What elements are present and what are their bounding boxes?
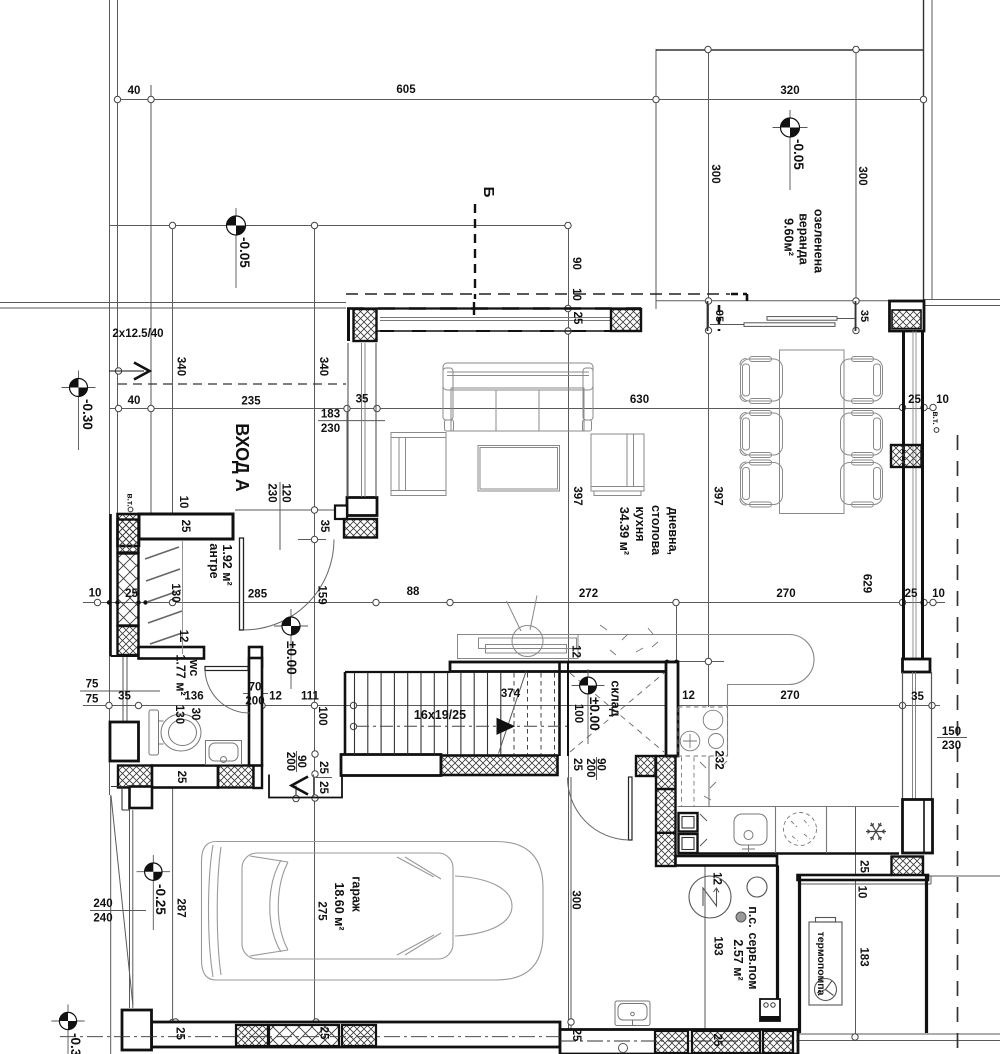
- kitchen base counters: [678, 756, 900, 853]
- svg-text:95: 95: [713, 310, 725, 322]
- svg-text:-0.05: -0.05: [791, 139, 806, 170]
- car in garage: [202, 842, 544, 981]
- svg-text:230: 230: [321, 423, 340, 435]
- door wc leaf and swing: [205, 667, 248, 671]
- svg-text:340: 340: [175, 357, 187, 376]
- svg-text:25: 25: [179, 520, 191, 533]
- door service radiator: [760, 999, 780, 1021]
- svg-text:40: 40: [128, 395, 141, 407]
- wall west exterior column: [118, 520, 139, 553]
- node elevation marker -0.25 garage: [137, 855, 170, 930]
- oven stack: [679, 813, 708, 853]
- arrow entrance: [109, 363, 150, 380]
- wall service east: [776, 866, 779, 1022]
- svg-text:272: 272: [579, 588, 598, 600]
- node dimension labels horizontal: [86, 84, 961, 925]
- wall entrance east pier: [347, 498, 377, 516]
- svg-text:100: 100: [316, 706, 328, 725]
- wall east kitchen block: [903, 800, 933, 854]
- svg-text:90: 90: [570, 257, 582, 270]
- dining chairs: [740, 357, 783, 404]
- fridge snowflake kitchen: [866, 823, 886, 840]
- svg-text:12: 12: [177, 630, 189, 643]
- svg-text:35: 35: [858, 310, 870, 322]
- window wc west: [122, 656, 124, 722]
- door entrance leaf and swing: [205, 538, 632, 840]
- svg-text:±0.00: ±0.00: [587, 697, 602, 731]
- svg-text:12: 12: [269, 691, 282, 703]
- svg-text:п.с.: п.с.: [746, 906, 760, 927]
- svg-text:30: 30: [189, 708, 201, 721]
- svg-text:кухня: кухня: [633, 506, 647, 541]
- svg-text:1.77 м²: 1.77 м²: [174, 654, 188, 695]
- wall stair-kitchen north band: [269, 662, 928, 1033]
- svg-text:ВХОД А: ВХОД А: [232, 423, 252, 491]
- svg-text:10: 10: [89, 588, 102, 600]
- svg-text:183: 183: [321, 409, 340, 421]
- svg-text:397: 397: [712, 486, 724, 505]
- svg-text:Б: Б: [480, 187, 497, 198]
- svg-text:2x12.5/40: 2x12.5/40: [112, 328, 163, 340]
- svg-text:320: 320: [780, 85, 799, 97]
- svg-text:серв.пом: серв.пом: [746, 933, 760, 990]
- cooktop dashed: [784, 813, 817, 846]
- svg-text:100: 100: [572, 704, 584, 723]
- heat pump termopompa: [809, 918, 842, 1006]
- svg-text:25: 25: [125, 588, 138, 600]
- svg-text:90: 90: [595, 758, 607, 771]
- svg-text:75: 75: [86, 679, 99, 691]
- kitchen peninsula counter: [568, 635, 814, 757]
- svg-text:35: 35: [356, 394, 369, 406]
- wall living north pier east: [611, 309, 641, 331]
- kitchen sink south: [734, 814, 767, 853]
- svg-text:374: 374: [501, 688, 521, 700]
- node elevation marker +0.00 sklad: [572, 669, 605, 744]
- svg-text:10: 10: [570, 288, 582, 301]
- stairs direction line and arrow: [356, 725, 567, 727]
- svg-text:200: 200: [284, 752, 296, 771]
- kitchen upper cabinets dashed with burners: [678, 707, 728, 806]
- armchair east: [591, 434, 644, 496]
- svg-text:130: 130: [173, 705, 185, 724]
- dining table: [780, 350, 845, 514]
- wall corridor south band: [560, 1030, 798, 1054]
- svg-text:25: 25: [174, 1027, 186, 1040]
- svg-text:630: 630: [630, 394, 649, 406]
- wall stairs west edge: [344, 672, 347, 755]
- svg-text:200: 200: [584, 758, 596, 777]
- svg-text:12: 12: [711, 872, 723, 885]
- svg-text:12: 12: [682, 690, 695, 702]
- wall wc east column: [249, 658, 262, 766]
- wall service north: [676, 856, 778, 866]
- wall entrance step west: [130, 787, 153, 809]
- svg-text:34.39 м²: 34.39 м²: [617, 507, 631, 555]
- svg-text:в.т.: в.т.: [126, 493, 136, 506]
- wall wc west: [110, 722, 139, 761]
- washbasin wc: [206, 741, 242, 765]
- svg-text:25: 25: [908, 394, 921, 406]
- svg-text:240: 240: [93, 898, 112, 910]
- svg-text:300: 300: [570, 890, 582, 909]
- svg-text:275: 275: [316, 901, 328, 921]
- svg-text:130: 130: [169, 583, 181, 602]
- node dimension labels rotated: [126, 164, 942, 1047]
- svg-text:wc: wc: [187, 659, 201, 677]
- svg-text:75: 75: [86, 694, 99, 706]
- svg-text:25: 25: [571, 758, 583, 771]
- svg-text:270: 270: [780, 690, 799, 702]
- svg-text:70: 70: [249, 682, 262, 694]
- svg-text:629: 629: [861, 574, 873, 593]
- svg-text:-0.25: -0.25: [153, 884, 168, 915]
- svg-text:9.60м²: 9.60м²: [782, 218, 796, 256]
- svg-text:287: 287: [175, 898, 187, 917]
- stairs treads 16x19/25: [355, 673, 501, 755]
- toilet wc: [149, 710, 201, 755]
- svg-text:озеленена: озеленена: [812, 209, 826, 274]
- svg-text:40: 40: [128, 85, 141, 97]
- svg-text:25: 25: [317, 761, 329, 774]
- closet hangers entrance: [145, 547, 182, 644]
- svg-text:2.57 м²: 2.57 м²: [731, 939, 745, 980]
- wall living north window band: [347, 307, 641, 309]
- svg-text:10: 10: [936, 394, 949, 406]
- node elevation marker +0.00 hall: [274, 609, 308, 689]
- washbasin corridor: [615, 1001, 650, 1053]
- svg-text:18.60 м²: 18.60 м²: [332, 882, 346, 930]
- svg-text:35: 35: [118, 691, 131, 703]
- node elevation marker -0.05 veranda: [773, 110, 808, 190]
- svg-text:12: 12: [570, 645, 582, 658]
- wall wc north: [139, 647, 205, 659]
- node dimension chain markers: [94, 46, 936, 1040]
- svg-text:285: 285: [248, 589, 268, 601]
- svg-text:605: 605: [396, 84, 416, 96]
- svg-text:25: 25: [570, 1029, 582, 1042]
- wall garage south band: [111, 787, 798, 1054]
- node vt circle west: [128, 507, 133, 512]
- wall living west pier: [354, 309, 377, 341]
- node elevation marker -0.05 entrance: [219, 208, 254, 288]
- svg-text:термопомпа: термопомпа: [815, 932, 827, 996]
- svg-text:1.92 м²: 1.92 м²: [220, 544, 234, 585]
- svg-text:в.т.: в.т.: [931, 411, 941, 424]
- svg-text:230: 230: [266, 483, 278, 502]
- svg-text:111: 111: [301, 691, 320, 703]
- svg-text:25: 25: [858, 860, 870, 873]
- svg-text:88: 88: [407, 586, 420, 598]
- wall termo niche: [798, 875, 929, 880]
- svg-text:антре: антре: [207, 543, 221, 578]
- door kitchen-hall leaf and swing: [629, 777, 633, 840]
- svg-text:25: 25: [175, 771, 187, 784]
- svg-text:397: 397: [571, 486, 583, 505]
- svg-text:183: 183: [858, 947, 870, 966]
- wall sklad west: [558, 663, 561, 756]
- wire dashed overhang and section lines: [118, 204, 958, 1054]
- svg-text:25: 25: [905, 588, 918, 600]
- svg-text:25: 25: [571, 312, 583, 325]
- boiler service room: [689, 876, 767, 918]
- svg-text:300: 300: [856, 166, 868, 185]
- svg-text:232: 232: [713, 750, 725, 769]
- svg-text:25: 25: [317, 781, 329, 794]
- kitchen counter south wall edge: [678, 852, 900, 854]
- svg-text:25: 25: [318, 1027, 330, 1040]
- svg-text:300: 300: [709, 164, 721, 183]
- svg-text:дневна,: дневна,: [666, 507, 680, 555]
- scattered texture marks: [600, 625, 727, 800]
- svg-text:±0.00: ±0.00: [284, 641, 299, 675]
- svg-text:25: 25: [711, 1034, 723, 1047]
- svg-text:-0.30: -0.30: [80, 399, 95, 430]
- garage door niche: [269, 775, 342, 798]
- window east kitchen: [902, 672, 904, 799]
- svg-text:193: 193: [712, 936, 724, 955]
- window living west: [347, 343, 349, 497]
- svg-text:склад: склад: [609, 680, 623, 716]
- svg-text:10: 10: [932, 588, 945, 600]
- kitchen island with sink: [458, 596, 579, 659]
- sofa: [443, 363, 593, 431]
- svg-text:159: 159: [316, 585, 328, 604]
- wall corner NE block: [890, 301, 925, 331]
- wall wc south band: [118, 766, 152, 788]
- svg-text:35: 35: [318, 520, 330, 533]
- svg-text:340: 340: [317, 357, 329, 376]
- svg-text:16x19/25: 16x19/25: [414, 708, 466, 722]
- arrow garage door: [292, 777, 309, 796]
- svg-text:35: 35: [911, 691, 924, 703]
- wire axis centerlines over south walls: [60, 1037, 798, 1041]
- svg-text:240: 240: [93, 913, 112, 925]
- wall corner kitchen-hall: [636, 756, 656, 776]
- svg-text:230: 230: [942, 740, 961, 752]
- stairs break line: [499, 672, 527, 754]
- svg-text:150: 150: [942, 726, 961, 738]
- svg-text:-0.30: -0.30: [68, 1033, 83, 1054]
- window sliding door veranda: [707, 301, 709, 331]
- wall entrance north (hall top): [110, 301, 933, 876]
- node elevation marker -0.30 south: [51, 1004, 84, 1054]
- coffee table: [478, 446, 560, 492]
- wall service west column: [656, 756, 676, 866]
- svg-text:200: 200: [245, 696, 264, 708]
- svg-text:235: 235: [241, 396, 261, 408]
- svg-text:270: 270: [776, 588, 795, 600]
- wall east upper (dining): [902, 331, 905, 659]
- node elevation marker -0.30 west: [62, 371, 96, 451]
- svg-text:120: 120: [280, 483, 292, 502]
- armchair west: [391, 433, 446, 496]
- wall stairs south band: [341, 755, 441, 776]
- svg-text:столова: столова: [649, 505, 663, 556]
- svg-text:-0.05: -0.05: [237, 237, 252, 268]
- sklad dashed cross: [570, 673, 664, 752]
- svg-text:веранда: веранда: [797, 213, 811, 266]
- wall sklad east: [666, 662, 678, 756]
- svg-text:гараж: гараж: [350, 876, 364, 912]
- svg-text:10: 10: [177, 496, 189, 509]
- svg-text:10: 10: [856, 886, 868, 899]
